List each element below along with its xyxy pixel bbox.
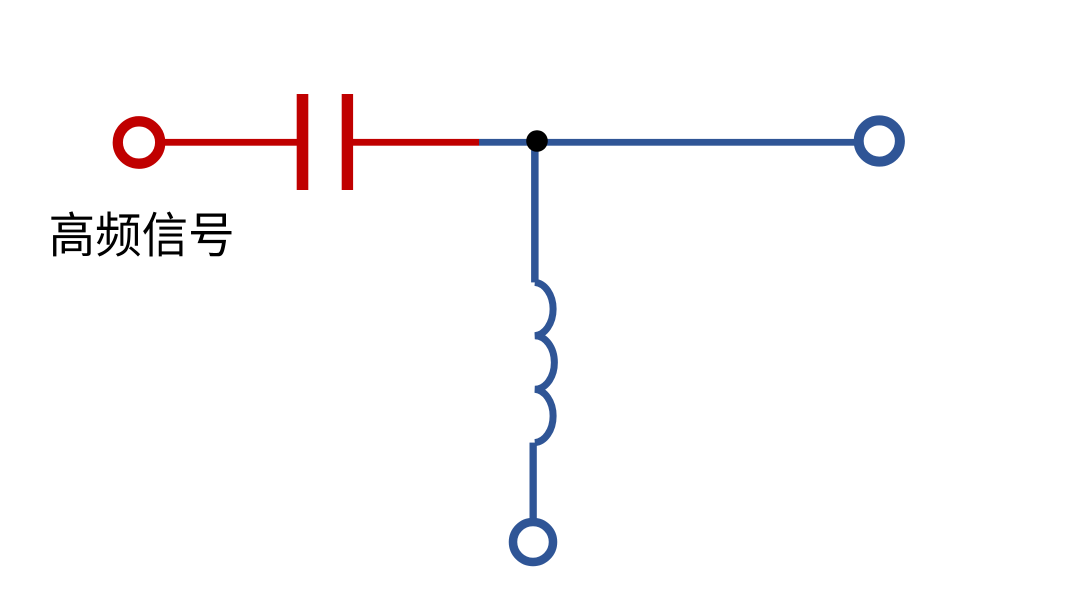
wire (blue, vertical, node A down to inductor) <box>531 141 539 282</box>
inductor L (three arcs) <box>535 282 555 442</box>
wire (red, capacitor right plate to node A) <box>353 139 479 146</box>
terminal J1 (input port, red open circle) <box>118 121 160 163</box>
capacitor C plate 1 (left) <box>297 94 309 190</box>
wire (red, terminal J1 to capacitor left plate) <box>163 139 297 146</box>
text label "高频信号" char 4: 号 <box>191 214 231 257</box>
wire (blue, node A to output terminal J2) <box>479 139 855 146</box>
text label "高频信号" char 2: 频 <box>97 211 140 256</box>
terminal J3 (ground-side port, blue open circle) <box>513 522 553 562</box>
text label "高频信号" char 1: 高 <box>51 211 92 256</box>
capacitor C plate 2 (right) <box>342 94 353 190</box>
junction dot (node A) <box>526 130 548 152</box>
terminal J2 (output port, blue open circle) <box>859 120 900 161</box>
wire (blue, vertical, inductor down to terminal J3) <box>530 443 537 522</box>
text label "高频信号" char 3: 信 <box>143 212 186 257</box>
